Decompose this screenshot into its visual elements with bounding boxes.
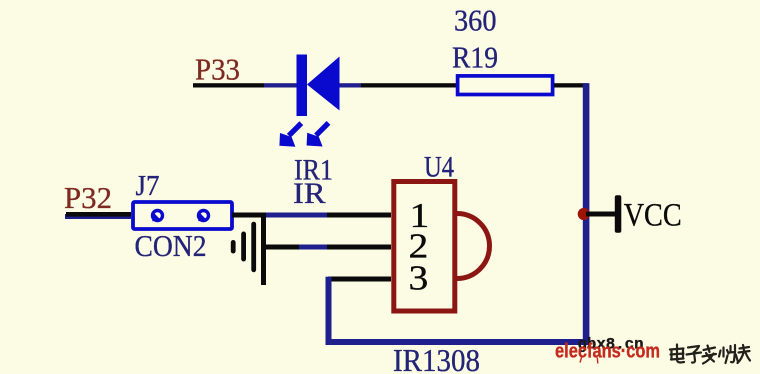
wire J7 to ground tap (black) — [232, 213, 266, 218]
svg-text:J7: J7 — [136, 170, 160, 202]
watermark elecfans logo accents — [580, 358, 598, 364]
svg-text:U4: U4 — [424, 151, 454, 184]
wire bottom rail (navy) — [326, 339, 589, 345]
junction dot VCC tap — [578, 208, 590, 220]
wire LED anode stub (navy) — [340, 83, 362, 87]
IC U4 lens bump — [457, 214, 490, 279]
wire P32 to J7 (navy under) — [65, 214, 131, 219]
connector J7 pad 2 — [199, 211, 209, 221]
svg-text:elecfans·com: elecfans·com — [555, 341, 660, 363]
watermark hanzi dian — [670, 345, 684, 363]
wire ground to U4 pin2 (black segment) — [266, 245, 299, 250]
ground bar medium — [241, 232, 246, 262]
svg-text:IR1308: IR1308 — [393, 342, 480, 374]
wire P33 to LED (navy segment) — [264, 83, 298, 87]
watermark hanzi zi — [687, 346, 702, 363]
connector J7 body — [133, 202, 232, 229]
LED arrow 1 — [279, 121, 303, 147]
wire net IR J7 to U4 pin1 (navy segment) — [266, 213, 327, 218]
svg-text:360: 360 — [454, 3, 497, 38]
wire LED to R19 (black) — [361, 83, 456, 87]
ground bar small — [231, 240, 236, 254]
wire U4 pin3 (black) — [328, 277, 391, 282]
connector J7 pad 1 notch — [152, 212, 161, 222]
svg-text:VCC: VCC — [624, 198, 682, 234]
svg-text:P33: P33 — [195, 52, 240, 87]
ground bar tall — [251, 222, 256, 273]
connector J7 pad 2 notch — [198, 212, 207, 222]
ground stem vertical — [261, 213, 266, 285]
IC U4 body — [394, 182, 455, 312]
svg-text:IR: IR — [293, 177, 326, 210]
connector J7 pad 1 — [153, 211, 163, 221]
wire to U4 pin2 (navy segment) — [299, 245, 327, 250]
wire P33 to LED (black segment) — [193, 83, 264, 87]
svg-text:CON2: CON2 — [135, 228, 207, 263]
wire P32 to J7 (black over) — [66, 212, 131, 217]
watermark hanzi shao — [719, 345, 738, 363]
VCC tap wire (black) — [586, 212, 617, 217]
svg-text:P32: P32 — [64, 180, 112, 215]
svg-text:3: 3 — [409, 260, 429, 298]
wire to U4 pin1 (black segment) — [327, 213, 391, 218]
wire to U4 pin2 (black segment 2) — [327, 245, 391, 250]
wire VCC vertical rail (navy) — [583, 83, 590, 345]
watermark hanzi you — [738, 345, 751, 363]
LED arrow 2 — [307, 121, 331, 147]
wire R19 to VCC rail (black) — [554, 83, 588, 87]
VCC bar — [615, 195, 622, 233]
watermark hanzi fa — [703, 346, 717, 364]
svg-text:R19: R19 — [452, 40, 498, 75]
LED IR1 triangle — [307, 57, 340, 111]
LED IR1 cathode bar — [297, 55, 308, 117]
resistor R19 body — [458, 76, 553, 95]
wire pin3 vertical (navy) — [326, 277, 332, 345]
